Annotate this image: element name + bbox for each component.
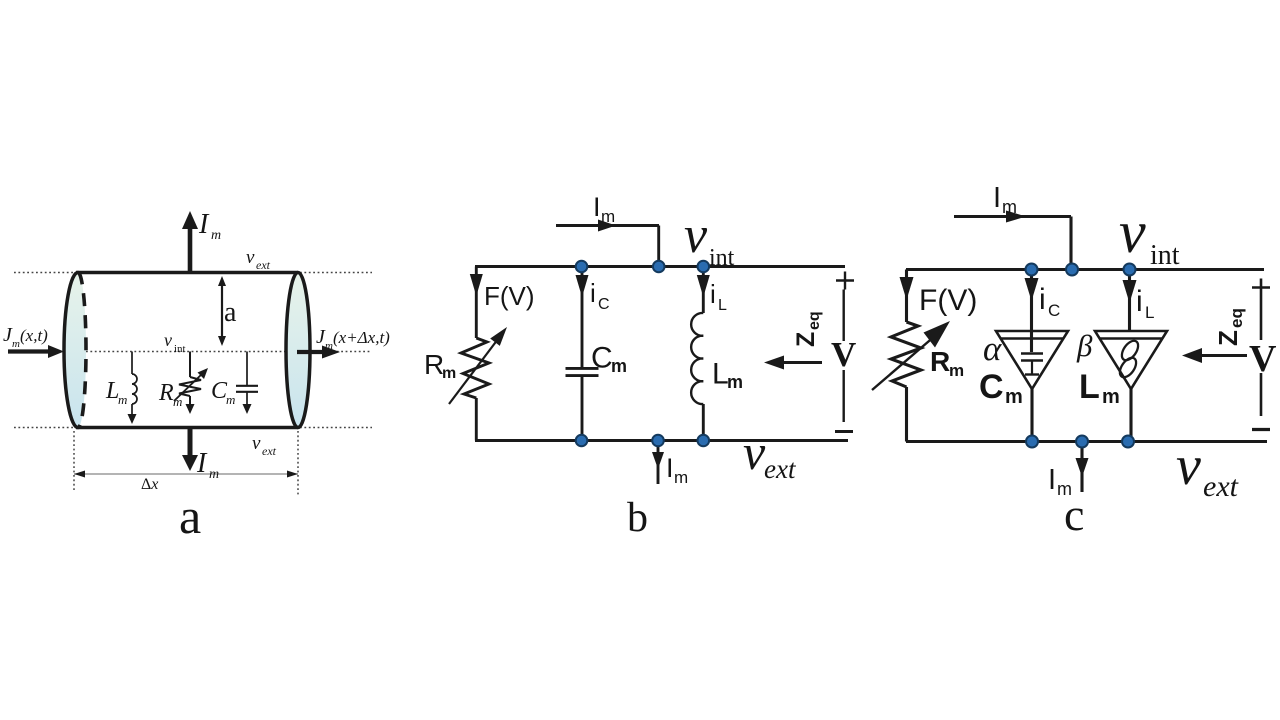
svg-text:I: I — [1048, 464, 1056, 496]
svg-text:int: int — [709, 245, 735, 271]
svg-text:i: i — [1039, 283, 1046, 316]
svg-text:v: v — [684, 207, 708, 264]
svg-text:ext: ext — [256, 258, 271, 272]
svg-text:L: L — [718, 297, 727, 314]
svg-text:I: I — [196, 448, 208, 479]
svg-text:V: V — [1249, 338, 1277, 380]
svg-text:eq: eq — [1227, 308, 1246, 328]
svg-text:F(V): F(V) — [919, 284, 977, 317]
svg-text:C: C — [591, 342, 613, 375]
svg-text:I: I — [666, 453, 674, 483]
svg-text:R: R — [930, 346, 950, 377]
svg-text:L: L — [1145, 303, 1154, 322]
svg-text:m: m — [211, 228, 221, 243]
svg-text:I: I — [198, 209, 210, 240]
svg-text:i: i — [590, 278, 596, 308]
svg-text:L: L — [1079, 368, 1100, 406]
svg-text:(x+Δx,t): (x+Δx,t) — [333, 328, 390, 347]
svg-text:m: m — [226, 392, 235, 407]
svg-text:F(V): F(V) — [484, 281, 535, 311]
svg-text:m: m — [949, 361, 964, 380]
svg-text:m: m — [611, 356, 627, 376]
svg-text:m: m — [209, 467, 219, 482]
svg-text:m: m — [12, 338, 20, 350]
svg-text:int: int — [1150, 240, 1180, 271]
svg-text:m: m — [173, 394, 182, 409]
svg-text:m: m — [442, 365, 456, 382]
svg-text:Δx: Δx — [141, 476, 158, 493]
svg-text:v: v — [252, 433, 261, 454]
svg-text:m: m — [1005, 386, 1023, 408]
svg-text:V: V — [831, 335, 856, 374]
svg-text:c: c — [1064, 489, 1084, 540]
svg-text:eq: eq — [806, 311, 823, 330]
svg-text:m: m — [1002, 197, 1017, 217]
svg-text:C: C — [979, 368, 1004, 406]
svg-text:ext: ext — [1203, 470, 1239, 503]
svg-text:C: C — [598, 296, 610, 313]
svg-text:Z: Z — [1213, 330, 1243, 346]
svg-text:v: v — [1119, 199, 1146, 265]
svg-text:(x,t): (x,t) — [20, 326, 48, 345]
svg-text:I: I — [593, 192, 601, 222]
svg-text:int: int — [174, 343, 186, 355]
svg-text:ext: ext — [764, 454, 797, 484]
svg-text:α: α — [983, 329, 1002, 368]
svg-text:m: m — [601, 207, 615, 226]
svg-text:v: v — [743, 424, 766, 480]
svg-text:v: v — [164, 330, 172, 350]
svg-text:m: m — [1102, 386, 1120, 408]
svg-text:m: m — [727, 372, 743, 392]
svg-text:m: m — [325, 340, 333, 352]
svg-text:v: v — [246, 247, 255, 268]
svg-text:a: a — [224, 297, 237, 328]
svg-text:v: v — [1176, 435, 1201, 497]
svg-text:β: β — [1076, 328, 1093, 363]
svg-text:ext: ext — [262, 444, 277, 458]
svg-text:m: m — [118, 392, 127, 407]
svg-text:Z: Z — [792, 332, 820, 347]
svg-text:i: i — [710, 279, 716, 309]
svg-text:m: m — [674, 468, 688, 487]
svg-text:I: I — [993, 182, 1001, 214]
svg-text:b: b — [627, 495, 648, 541]
svg-text:C: C — [1048, 301, 1060, 320]
svg-text:R: R — [158, 380, 174, 406]
svg-text:i: i — [1136, 285, 1143, 318]
svg-text:a: a — [179, 488, 201, 544]
